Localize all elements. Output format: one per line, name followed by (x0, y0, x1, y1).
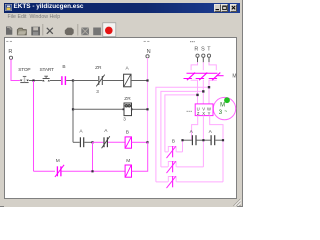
wire tap T phase (156, 87, 209, 182)
svg-text:STOP: STOP (18, 67, 30, 73)
motor terminal box U V W / Z X Y (195, 104, 213, 116)
node junction delta right (222, 139, 224, 141)
motor M 3~ circle (213, 97, 235, 119)
contact M (NC) (55, 165, 64, 177)
wire (132, 108, 148, 110)
contactor M pole blade bars (184, 78, 218, 80)
wire delta rung (183, 139, 224, 141)
svg-text:A: A (79, 129, 83, 135)
wire (108, 141, 125, 143)
svg-text:ZR: ZR (95, 65, 102, 71)
node junction (72, 79, 74, 81)
contact B pole 2 (star) (167, 161, 177, 173)
motor ellipsis (187, 111, 192, 112)
node junction (91, 141, 93, 143)
node junction on N (146, 79, 148, 81)
toolbar icon: open folder (17, 28, 26, 35)
wire X lead (202, 116, 204, 167)
svg-text:A: A (125, 65, 129, 71)
contact A (NO) (80, 137, 83, 147)
wire Z lead (192, 116, 198, 141)
status bar resize grip (234, 199, 242, 206)
terminal R circle (9, 56, 12, 59)
wire (93, 141, 104, 143)
toolbar icons + circuit drawn in one overlay SVG in window coordinates (0, 0, 243, 207)
toolbar separator (42, 24, 44, 36)
toolbar icon: eraser blob (65, 28, 74, 36)
node junction (72, 108, 74, 110)
toolbar icon: save (31, 27, 40, 36)
wire (131, 80, 148, 82)
wire (73, 80, 98, 82)
wire (84, 141, 92, 143)
svg-text:~: ~ (224, 109, 227, 115)
svg-text:Y: Y (208, 111, 211, 116)
wire (62, 170, 125, 172)
pushbutton STOP (NC) (20, 76, 29, 82)
toolbar icon: new document (6, 27, 12, 35)
svg-text:A: A (190, 129, 194, 135)
wire (66, 80, 73, 82)
coil A (124, 74, 131, 87)
wire (132, 141, 148, 143)
svg-text:ZR: ZR (124, 96, 131, 102)
terminal R tick marks (6, 40, 12, 42)
node junction R tap (196, 94, 198, 96)
node junction delta mid (202, 139, 204, 141)
contactor M pole 3 (jog right) (209, 62, 216, 104)
toolbar icon: delete X (47, 28, 53, 34)
wire (50, 80, 61, 82)
svg-text:X: X (202, 111, 205, 116)
wire drop to M rung (92, 142, 94, 171)
wire star rung 1 (165, 151, 183, 153)
svg-text:A: A (209, 129, 213, 135)
svg-text:A: A (104, 128, 108, 134)
toolbar icon: gray square (93, 28, 101, 36)
terminal R S T tick marks (190, 41, 195, 42)
terminal S circle (202, 54, 205, 57)
svg-text:S: S (201, 47, 205, 53)
coil M (125, 165, 131, 177)
svg-text:START: START (39, 67, 54, 73)
terminal N circle (146, 55, 149, 58)
node junction T tap (208, 86, 210, 88)
node junction S tap (202, 90, 204, 92)
toolbar icon: checker square (81, 28, 89, 36)
wire drop to M rung (33, 81, 35, 171)
svg-text:3: 3 (123, 116, 126, 121)
svg-text:3: 3 (96, 89, 99, 94)
svg-text:M: M (220, 103, 225, 109)
svg-text:N: N (147, 49, 151, 55)
wire M rung (34, 170, 56, 172)
wire return to N (132, 142, 148, 171)
wire tap R phase (165, 95, 198, 152)
contact ZR (NC timed) (96, 75, 104, 87)
svg-text:R: R (194, 47, 198, 53)
toolbar button pressed: record (103, 23, 116, 37)
contact A (NC) (102, 136, 110, 148)
contactor M pole 2 (straight) (202, 62, 204, 104)
wire tap S phase (161, 91, 203, 166)
node junction delta left (181, 139, 183, 141)
wire vertical branch (72, 81, 74, 143)
contact B pole 3 (star) (167, 176, 177, 188)
toolbar separator (77, 24, 79, 36)
svg-text:R: R (8, 49, 12, 55)
contact B pole 1 (star) (167, 146, 177, 158)
wire rung 3 start (73, 141, 80, 143)
node junction (self-hold tap) (32, 79, 34, 81)
wire Y lead (210, 116, 223, 182)
node junction (91, 170, 93, 172)
wire star rung 2 (161, 166, 204, 168)
wire (29, 80, 43, 82)
wire phase stubs (198, 57, 210, 62)
wire rung 2 (73, 108, 124, 110)
contact B (NO) (62, 76, 66, 85)
terminal T circle (207, 54, 210, 57)
svg-text:M: M (232, 74, 236, 80)
wire R feed (11, 59, 20, 80)
pushbutton START (NO) (42, 76, 50, 81)
wire N line (147, 58, 149, 142)
svg-text:B: B (172, 138, 175, 143)
wire star rung 3 (156, 181, 223, 183)
motor state green dot (224, 97, 230, 103)
contact A pole 2 (delta) (211, 135, 215, 145)
svg-text:Z: Z (197, 111, 200, 116)
contactor M pole 1 (jog left) (191, 62, 197, 104)
svg-text:M: M (56, 158, 60, 164)
node nubs at ZR coil terminals (123, 108, 125, 110)
coil B (125, 137, 131, 148)
svg-text:M: M (126, 158, 130, 164)
coil ZR (timer) (124, 103, 132, 116)
wire riser B1 to delta rung (182, 140, 184, 152)
contactor M pole blades (187, 73, 220, 81)
svg-text:B: B (126, 129, 129, 135)
node junction on N (146, 108, 148, 110)
svg-text:T: T (207, 47, 211, 53)
terminal N tick marks (144, 40, 150, 42)
wire (103, 80, 124, 82)
contactor M linkage bar (187, 73, 224, 75)
node junction on N (146, 141, 148, 143)
contact A pole 1 (delta) (192, 135, 196, 145)
svg-text:B: B (62, 64, 65, 70)
terminal R circle (power) (196, 54, 199, 57)
